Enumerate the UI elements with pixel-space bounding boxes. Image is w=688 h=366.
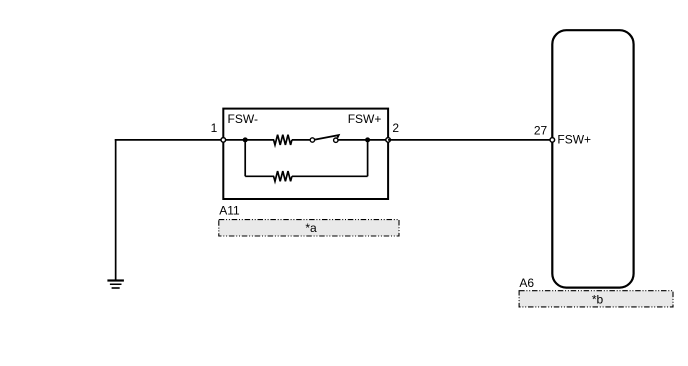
wire: lower branch right vertical <box>367 140 369 176</box>
ground <box>107 279 124 288</box>
pin 27 terminal circle <box>550 138 555 143</box>
junction dot (right) <box>365 137 370 142</box>
wire: top resistor to switch contact <box>292 139 310 141</box>
wire: pin1 to top resistor <box>223 139 274 141</box>
svg-text:A11: A11 <box>219 203 240 217</box>
wire: left horizontal from ground riser to A11 pin 1 <box>115 139 224 141</box>
connector A6 (ECM) rounded box <box>552 30 633 287</box>
svg-text:27: 27 <box>534 124 548 138</box>
note box *a <box>219 220 399 236</box>
pin 2 terminal circle <box>386 138 391 143</box>
junction dot (left) <box>243 137 248 142</box>
svg-text:FSW+: FSW+ <box>557 133 591 147</box>
svg-text:*b: *b <box>592 292 604 306</box>
svg-text:FSW+: FSW+ <box>348 112 382 126</box>
resistor (top branch) <box>274 135 292 145</box>
pin 1 terminal circle <box>221 138 226 143</box>
resistor (lower branch) <box>274 171 292 181</box>
svg-text:2: 2 <box>392 121 399 135</box>
component A11 (fuel switch) box <box>223 109 388 199</box>
wire: ground riser vertical <box>115 139 117 280</box>
wire: lower branch left vertical <box>244 140 246 176</box>
wire: A11 pin 2 to A6 pin 27 <box>388 139 552 141</box>
wire: lower branch left horizontal <box>245 175 274 177</box>
wire: switch to pin 2 <box>338 139 388 141</box>
wire: lower branch right horizontal <box>292 175 368 177</box>
svg-text:1: 1 <box>211 121 218 135</box>
svg-text:*a: *a <box>305 221 317 235</box>
note box *b <box>519 291 673 307</box>
switch (open) <box>310 135 339 142</box>
svg-text:A6: A6 <box>519 276 534 290</box>
svg-text:FSW-: FSW- <box>228 112 258 126</box>
